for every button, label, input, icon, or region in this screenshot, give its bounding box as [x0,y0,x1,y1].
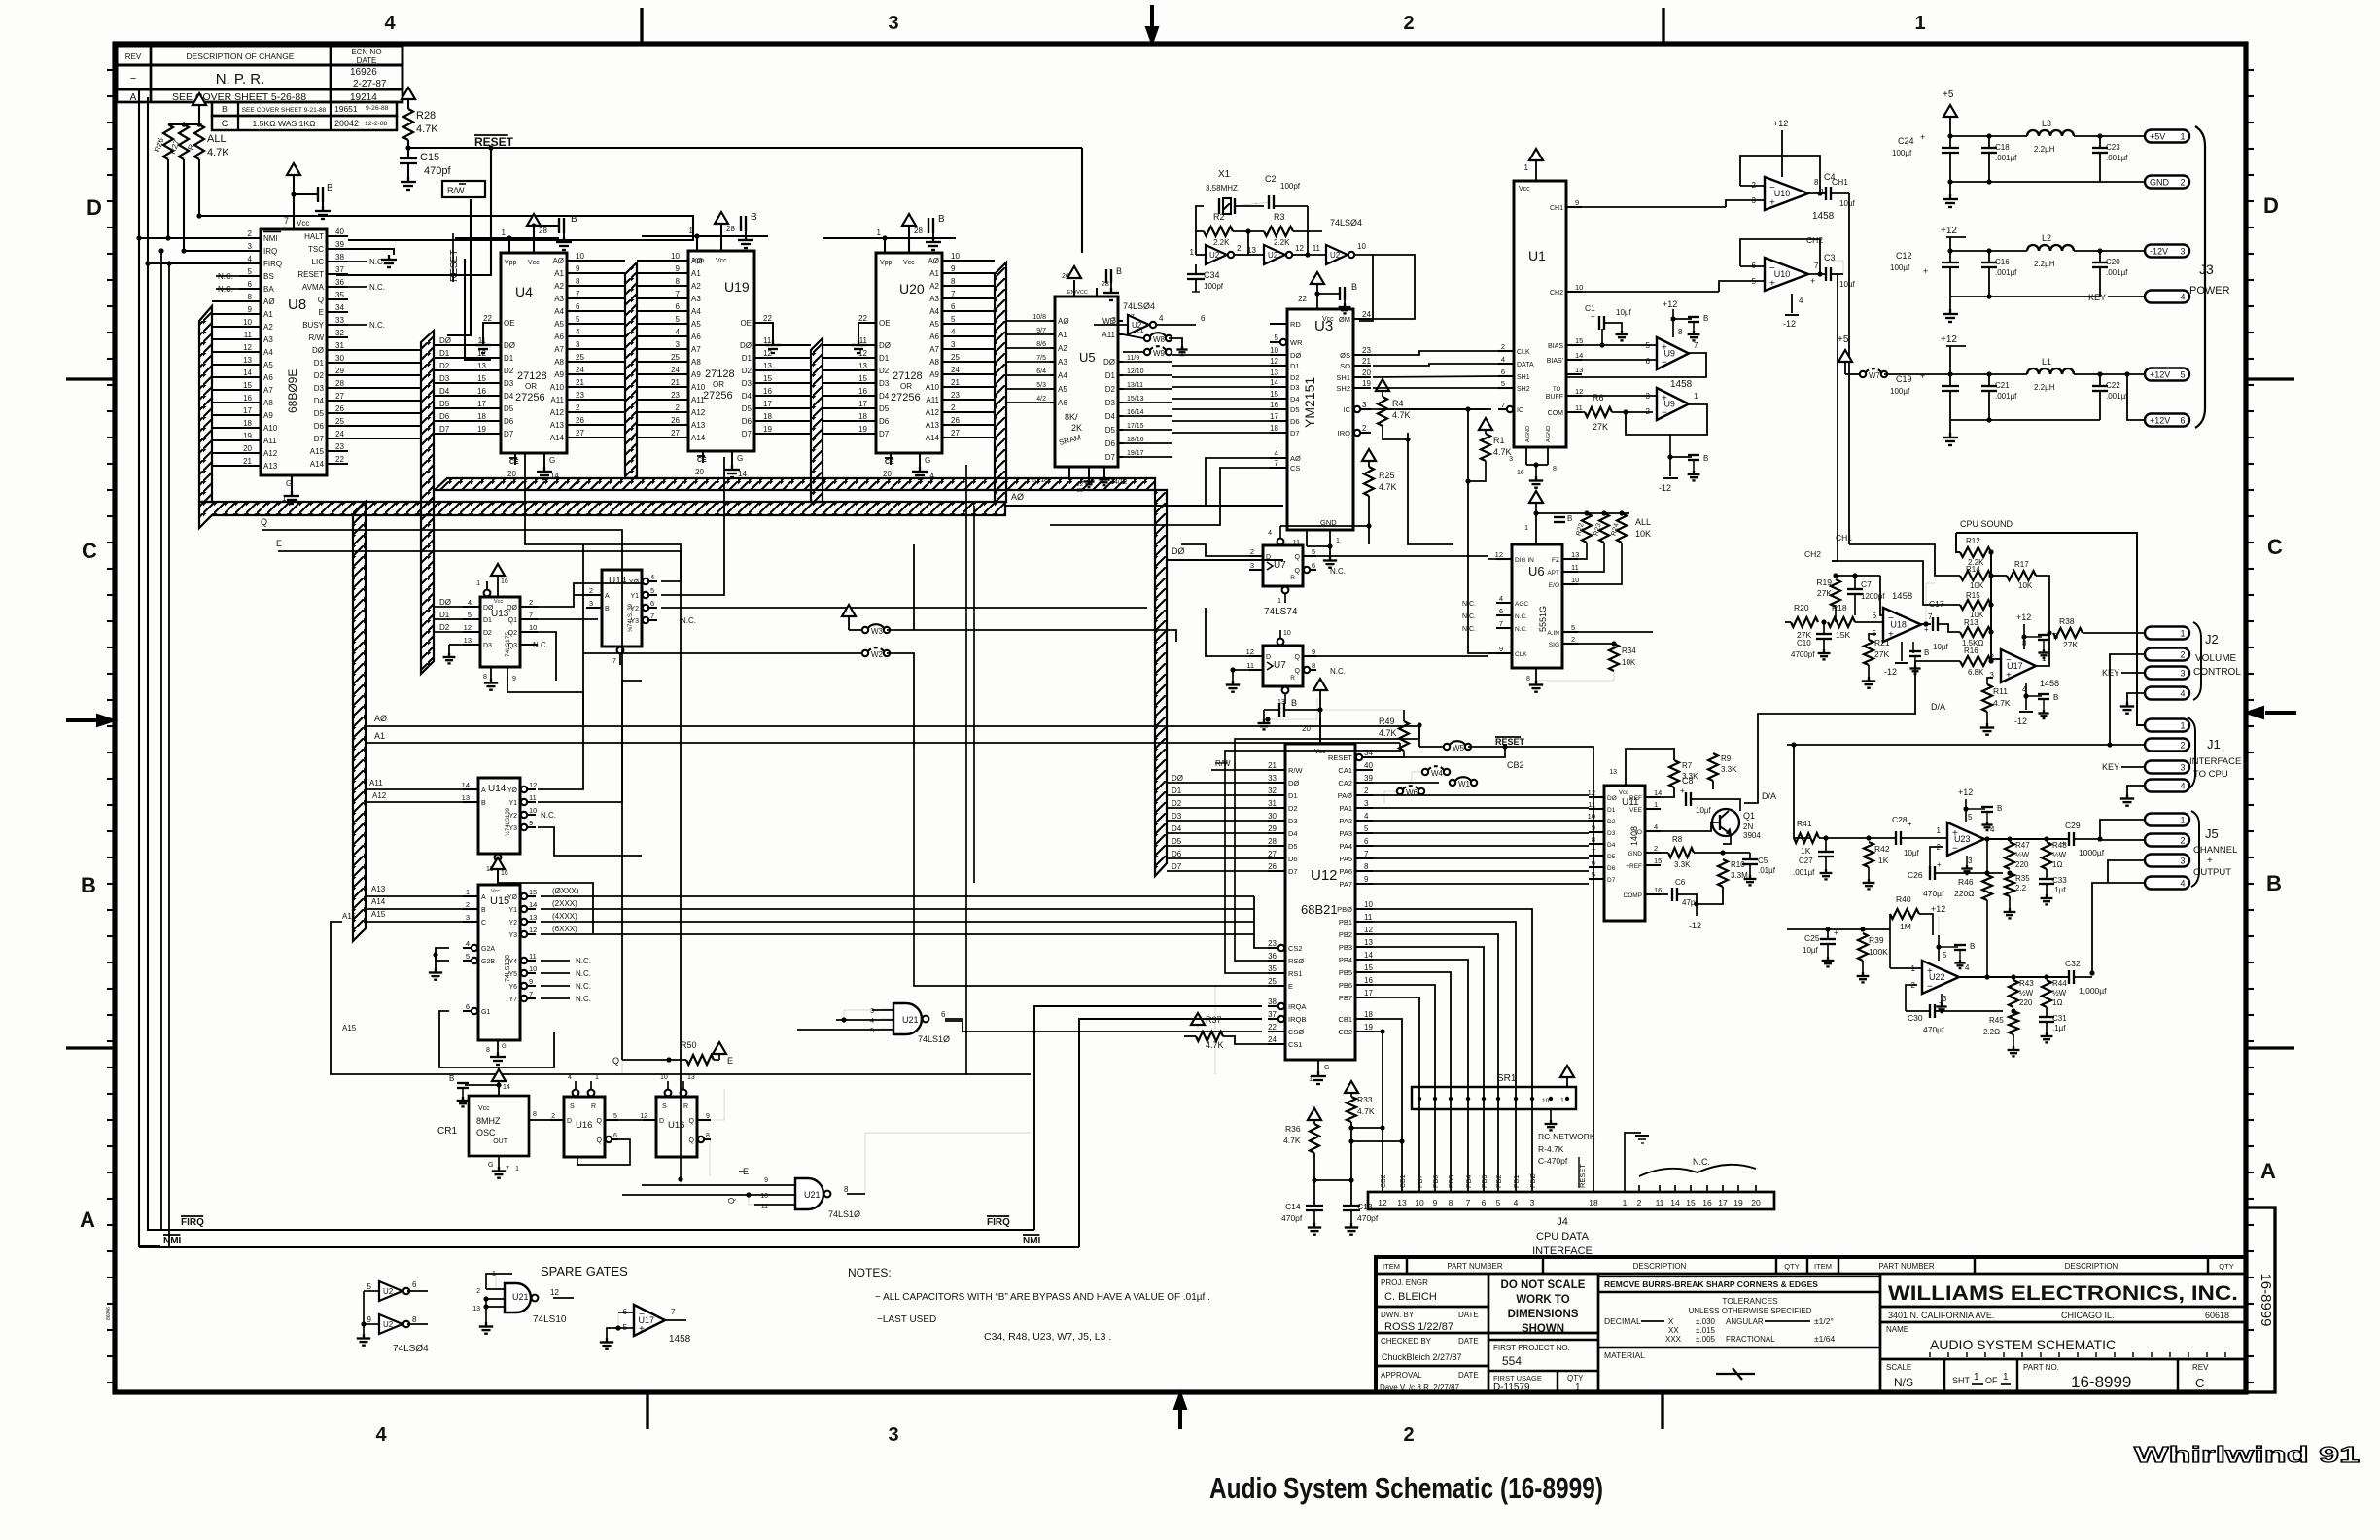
svg-text:Vcc: Vcc [297,219,309,227]
U15 G1 loop [439,1011,554,1067]
U22 output wire [1959,976,2069,978]
svg-text:1: 1 [1524,525,1528,532]
svg-text:100µf: 100µf [1890,263,1910,272]
svg-text:W2: W2 [871,650,884,659]
svg-text:10K: 10K [2018,581,2033,590]
svg-text:1: 1 [515,1166,519,1172]
svg-text:CR1: CR1 [437,1126,457,1137]
spare inverter joint [363,1291,365,1324]
svg-text:2: 2 [466,900,470,909]
svg-text:C12: C12 [1896,251,1912,261]
zone arrow left [66,718,97,722]
svg-text:D2: D2 [879,367,890,375]
svg-text:CHICAGO IL.: CHICAGO IL. [2061,1311,2115,1320]
svg-text:N.C.: N.C. [541,811,556,820]
svg-text:17: 17 [858,400,867,408]
svg-text:2.2µH: 2.2µH [2034,260,2055,268]
svg-text:OR: OR [525,382,537,391]
svg-text:4.7K: 4.7K [1206,1040,1224,1050]
svg-text:35: 35 [1268,964,1277,973]
svg-text:1: 1 [1190,248,1195,257]
nand U21 low [795,1178,823,1209]
svg-text:C15: C15 [420,152,439,163]
svg-text:Y1: Y1 [508,907,517,914]
svg-text:+5: +5 [1837,334,1849,345]
svg-text:4: 4 [375,1424,387,1446]
svg-text:4: 4 [676,328,681,336]
svg-text:18/16: 18/16 [1127,437,1144,443]
svg-text:5: 5 [367,1282,372,1291]
svg-text:B: B [81,873,96,897]
svg-text:4.7K: 4.7K [1379,482,1397,492]
wire cpu sound [1956,533,2145,725]
svg-text:17: 17 [243,406,252,415]
svg-text:R50: R50 [681,1040,697,1050]
svg-text:A10: A10 [263,424,278,433]
svg-text:D5: D5 [314,409,325,418]
svg-text:R33: R33 [1357,1095,1373,1104]
svg-text:NAME: NAME [1886,1325,1908,1334]
svg-text:16: 16 [1654,886,1662,894]
svg-text:32: 32 [335,329,344,337]
svg-text:3: 3 [2180,247,2185,257]
svg-text:74LS1Ø: 74LS1Ø [828,1209,860,1219]
svg-text:15: 15 [763,374,772,383]
capacitor C6 47pf [1661,893,1668,895]
svg-text:29: 29 [335,367,344,375]
svg-text:1: 1 [1937,826,1942,835]
resistor R9 3.3K [1708,753,1718,781]
U3 IRQ wire [1407,433,1409,439]
svg-text:12: 12 [529,781,537,789]
svg-text:15: 15 [477,374,486,383]
svg-text:8K/: 8K/ [1065,412,1078,422]
svg-text:2: 2 [1403,1424,1414,1446]
data bus wires U8 to U4 with labels [348,349,421,351]
svg-text:4: 4 [2180,782,2185,791]
svg-text:CSØ: CSØ [1288,1028,1304,1036]
svg-text:2: 2 [248,229,253,238]
svg-text:6: 6 [1201,314,1206,323]
svg-text:N.C.: N.C. [576,957,591,965]
wire C13 to CB1 vertical [1351,1140,1402,1142]
resistor pack SR1 [1412,1087,1576,1109]
U1 IC wire [1379,408,1491,410]
svg-text:+: + [1920,371,1925,381]
U19 address wires [637,260,684,262]
svg-text:5551G: 5551G [1538,606,1548,632]
svg-text:4: 4 [1965,963,1970,972]
svg-text:A13: A13 [926,421,940,430]
svg-text:6: 6 [613,1133,617,1139]
svg-text:.001µf: .001µf [2106,154,2128,162]
svg-text:Q: Q [612,1056,619,1066]
svg-text:+12: +12 [1931,904,1945,914]
svg-text:6/4: 6/4 [1036,368,1046,375]
svg-text:DØ: DØ [439,336,451,345]
svg-text:15: 15 [1654,857,1662,865]
svg-text:D6: D6 [1288,855,1298,863]
svg-text:86046: 86046 [106,1307,112,1320]
svg-text:3: 3 [248,242,253,251]
svg-text:RS1: RS1 [1288,969,1303,978]
svg-text:A11: A11 [550,396,564,404]
svg-text:RC-NETWORK: RC-NETWORK [1538,1132,1595,1141]
svg-text:A11: A11 [263,437,277,445]
svg-text:2: 2 [1637,1198,1642,1207]
svg-text:OE: OE [740,319,752,328]
svg-text:8: 8 [1312,661,1315,670]
CR1 bypass [465,1084,499,1086]
svg-text:U23: U23 [1954,834,1971,844]
svg-text:74LSØ4: 74LSØ4 [1330,218,1362,227]
opamp U9a 1458 [1657,337,1689,369]
U4 vcc rail and bypass [527,214,541,226]
U11 comp to -12 [1697,887,1723,904]
svg-text:A13: A13 [550,421,565,430]
ground J3 row2 [1949,297,1951,309]
svg-text:A11: A11 [1102,331,1115,339]
svg-text:D5: D5 [1288,842,1298,851]
svg-text:D6: D6 [879,417,890,426]
svg-text:26: 26 [335,404,344,413]
svg-text:-12: -12 [1783,319,1796,329]
svg-text:8: 8 [483,674,487,681]
wire FIRQ right vertical [1034,1006,1262,1230]
svg-text:4.7K: 4.7K [1283,1136,1301,1145]
wire NMI rail [139,1246,1079,1248]
svg-text:R19: R19 [1816,577,1832,587]
svg-text:12: 12 [1575,387,1583,396]
svg-text:B: B [751,212,757,223]
svg-text:16-8999: 16-8999 [2257,1273,2274,1326]
svg-text:8: 8 [1814,178,1819,187]
U10a feedback loop [1740,156,1820,193]
svg-text:B: B [605,606,610,612]
svg-text:10: 10 [243,318,252,327]
svg-text:27128: 27128 [705,368,735,380]
svg-text:DESCRIPTION OF CHANGE: DESCRIPTION OF CHANGE [187,52,295,61]
svg-text:FIRQ: FIRQ [987,1217,1010,1228]
svg-text:18: 18 [1270,424,1278,433]
svg-text:7: 7 [506,1166,509,1172]
svg-text:20: 20 [1302,724,1311,733]
svg-text:OSC: OSC [476,1128,496,1137]
svg-text:2: 2 [529,598,533,607]
U14a output wires [525,453,681,581]
svg-text:9: 9 [1433,1198,1438,1207]
U14b enable pin 15 [495,855,502,861]
wire RW vertical [447,199,471,335]
svg-text:28: 28 [914,227,923,235]
svg-text:4: 4 [2180,689,2185,699]
svg-text:23: 23 [951,391,960,400]
svg-text:C30: C30 [1907,1013,1923,1023]
U6 A.IN wire [1578,631,1653,633]
data riser band between U19 and U20 [811,338,822,502]
svg-text:10µf: 10µf [1802,946,1819,955]
svg-text:N.C.: N.C. [369,321,385,330]
svg-text:10: 10 [1542,1098,1550,1104]
svg-text:33: 33 [1268,774,1277,783]
svg-text:D7: D7 [1172,862,1182,871]
svg-text:PB1: PB1 [1339,918,1352,927]
svg-text:CPU SOUND: CPU SOUND [1960,519,2013,529]
bypass cap B U8 [291,192,296,196]
U17 summing opamp wire [1991,660,1998,662]
svg-text:QTY: QTY [1784,1262,1799,1271]
svg-text:R4: R4 [1392,399,1404,408]
svg-text:SHOWN: SHOWN [1522,1323,1564,1335]
U21 low input wires [642,1184,774,1186]
svg-text:A4: A4 [1058,371,1067,380]
svg-text:4: 4 [1268,530,1272,537]
svg-text:8: 8 [486,1047,490,1054]
svg-text:U21: U21 [804,1190,821,1200]
svg-text:A13: A13 [691,421,706,430]
svg-text:8: 8 [676,277,681,286]
svg-text:N.C.: N.C. [576,995,591,1003]
svg-text:A5: A5 [263,361,273,369]
svg-text:13: 13 [529,913,537,922]
capacitor C33 .1uf [2046,869,2047,879]
svg-text:2: 2 [1237,244,1242,253]
svg-text:4: 4 [466,939,470,948]
svg-text:12: 12 [243,343,252,352]
gnd rail row2 [1950,296,2100,297]
svg-text:10µf: 10µf [1839,199,1856,208]
svg-text:RESET: RESET [1328,753,1352,762]
svg-text:Audio System Schematic (16-899: Audio System Schematic (16-8999) [1209,1471,1603,1505]
svg-text:3: 3 [2180,669,2185,679]
svg-text:32: 32 [1268,787,1277,795]
data bus band down to U12 [1155,490,1167,876]
svg-text:21: 21 [1268,761,1277,770]
wire W2 long [914,749,1215,986]
svg-text:R34: R34 [1622,647,1636,655]
svg-text:PB1: PB1 [1514,1175,1521,1188]
svg-text:A6: A6 [554,332,564,341]
svg-text:10: 10 [1571,576,1579,584]
svg-text:.001µf: .001µf [1995,392,2017,401]
svg-text:22: 22 [335,455,344,464]
address bus band horizontal lower [199,502,1005,528]
svg-text:2.2: 2.2 [2015,884,2027,892]
svg-text:16: 16 [1517,470,1524,476]
svg-text:R8: R8 [1672,835,1683,844]
svg-text:36: 36 [335,278,344,287]
svg-text:C14: C14 [1285,1202,1301,1211]
svg-text:G: G [488,1162,493,1169]
svg-text:±.015: ±.015 [1696,1326,1716,1335]
U20 CE G pins [890,453,892,465]
revision table [117,46,402,65]
svg-text:D1: D1 [504,354,514,363]
svg-text:13/11: 13/11 [1127,382,1143,389]
svg-text:PA3: PA3 [1339,829,1352,838]
svg-text:SH2: SH2 [1517,386,1530,393]
svg-text:N.C.: N.C. [1330,667,1346,676]
U9b -12 and bypass [1669,435,1671,457]
svg-text:R: R [1290,575,1295,581]
svg-text:5: 5 [1312,547,1315,556]
svg-text:U20: U20 [899,281,925,297]
svg-text:OF: OF [1985,1376,1998,1385]
material cell [1598,1347,1880,1348]
svg-text:BIAS': BIAS' [1547,358,1563,365]
svg-text:A15: A15 [342,912,357,921]
resistor R35 2.2 [2005,873,2014,896]
svg-text:COMP: COMP [1624,892,1643,899]
svg-text:R: R [591,1103,596,1110]
svg-text:20042: 20042 [334,119,359,128]
svg-text:D1: D1 [879,354,890,363]
svg-text:U8: U8 [288,297,306,313]
svg-text:7: 7 [671,1308,676,1316]
svg-text:D5: D5 [742,404,752,413]
svg-text:CB2: CB2 [1338,1028,1352,1036]
U5 D wires to U3 [1123,361,1172,363]
svg-text:-12V: -12V [2150,247,2168,257]
svg-text:9: 9 [706,1113,710,1120]
ground C15 [407,163,409,177]
svg-text:A12: A12 [691,408,706,417]
svg-text:D3: D3 [879,379,890,388]
svg-text:(6XXX): (6XXX) [552,925,577,933]
svg-text:14: 14 [462,781,470,789]
svg-text:J2: J2 [2205,632,2219,647]
svg-text:W8: W8 [1153,335,1166,344]
svg-text:C17: C17 [1929,599,1944,609]
svg-text:D/A: D/A [1762,791,1776,801]
connector J3 pin 3 -12V [2145,245,2189,258]
svg-text:D7: D7 [439,425,450,434]
first project no cell [1488,1339,1598,1341]
svg-text:Vcc: Vcc [1322,316,1334,323]
U5 ground pins [1068,467,1070,480]
svg-text:CH2: CH2 [1550,290,1563,297]
svg-text:W7: W7 [1869,371,1881,380]
resistor R27 [179,124,189,159]
first usage cell [1488,1370,1598,1372]
svg-text:DØ: DØ [1290,351,1301,360]
svg-text:U10: U10 [1774,189,1791,198]
svg-text:(2XXX): (2XXX) [552,899,577,908]
svg-text:D5: D5 [1290,405,1300,414]
svg-text:A: A [481,894,486,901]
svg-text:D4: D4 [1607,842,1616,849]
svg-text:2.2µH: 2.2µH [2034,383,2055,392]
svg-text:14: 14 [1670,1198,1680,1207]
connector J1 pin 4 [2145,780,2189,792]
svg-text:20: 20 [243,444,252,453]
capacitor C20 .001uf [2099,251,2101,262]
zone tick marks right border [2246,69,2254,71]
wire R46 down join [1986,900,1988,977]
svg-text:Q: Q [1295,568,1301,575]
svg-text:U22: U22 [1929,972,1945,982]
svg-text:10µf: 10µf [1616,308,1632,317]
svg-text:9: 9 [529,977,533,986]
U12 vcc pin 20 [1319,717,1321,744]
svg-text:A14: A14 [926,434,940,442]
svg-text:12: 12 [1378,1198,1387,1207]
svg-text:13: 13 [477,362,486,370]
svg-text:PA1: PA1 [1339,804,1352,813]
svg-text:1: 1 [1914,13,1925,34]
svg-text:11: 11 [1571,563,1579,572]
svg-text:U11: U11 [1622,797,1639,808]
svg-text:100pf: 100pf [1280,182,1301,191]
svg-text:PA2: PA2 [1339,817,1352,825]
U22 gnd pin3 [1941,994,1942,1003]
svg-text:Q: Q [597,1137,603,1144]
svg-text:A1: A1 [929,269,939,278]
svg-text:35: 35 [335,291,344,299]
svg-text:15: 15 [858,374,867,383]
U7b gnd [1233,669,1249,671]
svg-text:10: 10 [529,964,537,973]
svg-text:+12: +12 [2016,612,2031,622]
svg-text:8: 8 [1526,676,1530,682]
svg-text:4700pf: 4700pf [1791,650,1815,659]
svg-text:U18: U18 [1890,620,1907,630]
U12 CA1 CA2 wires [1373,782,1439,784]
svg-text:4: 4 [468,598,472,607]
svg-text:1: 1 [502,228,507,237]
svg-text:19651: 19651 [334,104,358,114]
svg-text:34: 34 [335,303,344,312]
connector J2 pin 4 [2145,687,2189,700]
svg-text:10: 10 [529,806,537,815]
capacitor C21 .001uf [1988,374,1990,386]
svg-text:G2B: G2B [481,959,495,965]
svg-text:+12: +12 [1662,299,1677,309]
svg-text:N.C.: N.C. [1515,626,1527,633]
svg-text:6: 6 [1364,837,1369,846]
svg-text:25: 25 [671,353,680,362]
svg-text:ANGULAR: ANGULAR [1726,1317,1764,1326]
svg-text:INTERFACE: INTERFACE [1532,1245,1592,1257]
svg-text:FIRST PROJECT NO.: FIRST PROJECT NO. [1493,1344,1570,1352]
svg-text:PB5: PB5 [1339,968,1352,977]
svg-text:D1: D1 [1290,362,1300,370]
svg-text:2: 2 [1364,787,1369,795]
svg-text:5: 5 [466,952,470,961]
svg-text:A3: A3 [929,295,939,303]
svg-text:68BØ9E: 68BØ9E [286,369,299,413]
U12 D wires [1167,782,1268,784]
svg-text:AGC: AGC [1515,601,1528,608]
svg-text:D2: D2 [1607,819,1616,825]
svg-text:R11: R11 [1993,686,2008,696]
svg-text:6: 6 [1646,357,1651,366]
svg-text:DØ: DØ [1172,774,1183,783]
svg-text:YØ: YØ [629,579,640,586]
svg-text:2: 2 [551,1113,555,1120]
svg-text:30: 30 [335,354,344,363]
capacitor C17 10uf [1921,623,1931,625]
svg-text:.001µf: .001µf [1793,868,1815,877]
svg-text:B: B [1567,514,1572,523]
capacitor C13 470pf [1343,1205,1360,1207]
svg-text:27K: 27K [1817,588,1832,598]
svg-text:TO: TO [1553,387,1561,393]
svg-text:2: 2 [1571,635,1575,644]
svg-text:+12V: +12V [2150,370,2170,380]
svg-text:-12: -12 [2014,717,2027,726]
svg-text:.001µf: .001µf [1995,154,2017,162]
